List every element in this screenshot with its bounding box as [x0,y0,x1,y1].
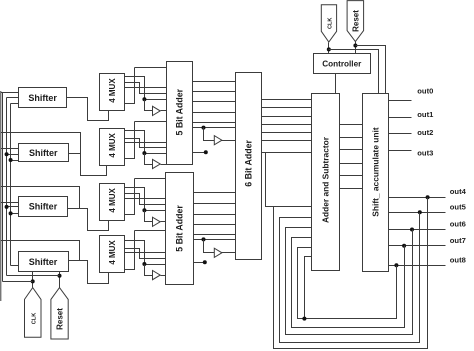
wire - controller output to adder/subtractor [335,74,337,94]
wire - buffer output to 5 bit adder [161,164,167,166]
wire - 4 MUX 3 output 1 [125,188,145,211]
wire - Reset node to Reset bus [7,275,60,277]
input pin CLK (bottom) [25,288,42,338]
junction on 4 MUX 2 output 1 [142,151,146,155]
wire - output out4 [389,197,446,199]
wire - carry line into 5 bit adder (section 3) [135,178,166,180]
svg-text:out7: out7 [450,236,466,245]
shifter block Shifter4 [19,252,69,272]
junction on out8 [394,263,398,267]
multiplexer 4 MUX 1 [100,74,125,111]
wire - 6 bit adder output bit 5 [262,140,312,142]
wire - branch of bit 6 down to feedback row [266,153,312,207]
wire - buffer output to 5 bit adder [161,110,167,112]
input pin CLK (top) [321,5,336,42]
svg-text:Shifter: Shifter [29,202,58,212]
wire - buffer output to 5 bit adder [161,221,166,223]
wire - Shifter1 input from data bus [11,103,19,105]
wire - feedback from carry line into 4 MUX 1 right side [125,68,135,104]
junction on out4 [426,195,430,199]
wire - buffer output into 6 bit adder [222,140,236,142]
wire - output 1 branch down to buffer [145,100,153,111]
label out1 [417,110,434,119]
svg-text:Adder and Subtractor: Adder and Subtractor [320,136,330,223]
svg-text:out4: out4 [450,187,467,196]
wire - output out5 [389,212,446,214]
wire - Reset bus vertical (left) [6,98,8,276]
svg-text:4 MUX: 4 MUX [108,240,117,265]
shifter block Shifter1 [19,88,67,108]
svg-text:5 Bit Adder: 5 Bit Adder [175,88,185,135]
wire - Shifter3 input from Reset bus [7,206,19,208]
wire - feedback branch from adder/subtractor into out8 loop [305,257,312,319]
wire - 5 bit adder output bit 1 [193,91,236,93]
wire - Reset pin to Shifter4 [59,272,61,288]
svg-text:out3: out3 [417,148,433,157]
wire - adder/subtractor output 1 to shift accumulate unit [340,137,363,139]
wire - adder/subtractor output 5 to shift accumulate unit [340,188,363,190]
wire - stub with terminal dot [194,262,205,264]
svg-text:4 MUX: 4 MUX [108,187,117,212]
wire - Shifter3 input from data bus [11,213,19,215]
wire - 4 MUX 4 output 3 [125,252,166,254]
wire - 6 bit adder output bit 3 [262,124,312,126]
junction on Reset bus at Shifter2 [5,152,9,156]
wire - 6 bit adder output bit 6 with feedback branch [262,152,312,154]
multiplexer 4 MUX 3 [100,184,125,221]
wire - Shifter2 input from data bus [11,160,19,162]
wire - CLK pin stub [328,43,330,54]
label out2 [417,128,433,137]
wire - 4 MUX 2 output 2 [125,139,167,148]
wire - carry branch down to buffer [204,240,215,253]
wire - 4 MUX 1 output 1 [125,77,145,100]
wire - 6 bit adder output bit 2 [262,116,312,118]
input pin Reset (top) [347,1,364,42]
buffer driver (section 1) [153,106,161,115]
wire - 5 bit adder output bit 2 [193,101,236,103]
junction on data bus at Shifter2 [9,158,13,162]
wire - 6 bit adder output bit 0 [262,99,312,101]
junction on out8 loop bottom [302,317,306,321]
wire - adder/subtractor output 2 to shift accumulate unit [340,149,363,151]
wire - Shifter1 output to 4 MUX 1 select [67,98,109,121]
terminal dot [203,260,207,264]
junction CLK bottom node [31,279,35,283]
wire - output 1 branch to adder pin [145,210,166,212]
controller block [314,54,371,74]
junction on out5 [418,210,422,214]
wire - carry branch down to buffer [204,128,215,141]
label out4 [450,187,467,196]
wire - CLK pin to Shifter4 [32,272,34,288]
wire - 4 MUX 4 output 1 [125,241,145,265]
wire - Shifter1 input from Reset bus [7,97,19,99]
wire - Reset pin stub [355,42,357,54]
wire - output out3 [389,150,412,152]
junction on data bus at Shifter3 [9,211,13,215]
shifter block Shifter2 [19,144,69,162]
multiplexer 4 MUX 2 [100,129,125,166]
wire - Shifter3 output to 4 MUX 3 select [68,209,109,231]
buffer driver to 6 bit adder [214,248,222,257]
wire - output 1 branch to adder pin [145,99,167,101]
svg-text:CLK: CLK [31,313,37,325]
junction on 4 MUX 3 output 1 [142,208,146,212]
svg-text:out5: out5 [450,202,467,211]
svg-text:Shifter: Shifter [29,148,58,158]
svg-text:Shifter: Shifter [29,257,58,267]
wire - 4 MUX 3 output 2 [125,194,166,205]
wire - feed line from left edge joining Shifter3 output [1,187,80,209]
svg-text:out6: out6 [450,220,466,229]
wire - output 1 branch to adder pin [145,264,166,266]
wire - output out2 [389,133,412,135]
junction on 4 MUX 4 output 1 [142,262,146,266]
wire - feedback loop out8 to adder/subtractor [298,248,397,319]
svg-text:CLK: CLK [328,18,334,30]
wire - 5 bit adder output bit 2 [194,214,236,216]
svg-text:out2: out2 [417,128,433,137]
wire - 4 MUX 4 output 2 [125,249,166,259]
wire - buffer output into 6 bit adder [222,252,236,254]
wire - 6 bit adder output bit 1 [262,107,312,109]
wire - Shifter2 output to 4 MUX 2 select [69,154,107,176]
buffer driver (section 2) [153,159,161,168]
junction CLK node [327,47,331,51]
wire - 4 MUX 1 output 3 [125,87,167,89]
wire - feedback loop out6 to adder/subtractor [286,228,413,335]
wire - feedback loop out7 to adder/subtractor [292,238,405,328]
junction on out6 [410,228,414,232]
svg-text:4 MUX: 4 MUX [108,132,117,157]
svg-text:out8: out8 [450,255,466,264]
adder-subtractor unit Adder and Subtractor [312,94,340,271]
wire - adder/subtractor output 0 to shift accumulate unit [340,124,363,126]
multiplexer 4 MUX 4 [100,236,125,273]
wire - output 1 branch to adder pin [145,153,167,155]
adder U2 5 Bit Adder (lower) [166,173,194,285]
wire - 4 MUX 2 output 1 [125,131,145,154]
label out0 [417,87,433,96]
svg-text:Reset: Reset [55,308,64,330]
wire - 6 bit adder output bit 4 [262,132,312,134]
wire - output 1 branch down to buffer [145,211,153,222]
junction on Reset bus at Shifter3 [5,205,9,209]
label out5 [450,202,467,211]
junction Reset bottom node [58,274,62,278]
label out8 [450,255,466,264]
svg-text:Controller: Controller [322,59,362,68]
wire - input to Shifter2 from left edge [1,148,19,150]
wire - 5 bit adder output bit 0 [194,192,236,194]
wire - 5 bit adder output bit 3 [193,112,236,114]
wire - input to Shifter3 from left edge [1,202,19,204]
wire - output out6 [389,229,446,231]
wire - output 1 branch down to buffer [145,265,153,276]
wire - adder/subtractor output 4 to shift accumulate unit [340,175,363,177]
wire - feed line from left edge joining Shifter2 output [1,133,81,154]
terminal dot [204,150,208,154]
wire - Shifter4 input from data bus [11,265,19,267]
wire - feedback from carry line into 4 MUX 3 right side [125,179,135,215]
wire - 5 bit adder output bit 4 [194,234,236,236]
wire - cropped gray edge line [0,91,2,301]
label out3 [417,148,433,157]
wire - Shifter4 output to 4 MUX 4 select [69,261,109,284]
junction on 4 MUX 1 output 1 [142,97,146,101]
svg-text:Shift_ accumulate unit: Shift_ accumulate unit [370,127,380,217]
wire - 5 bit adder output bit 3 [194,224,236,226]
wire - 4 MUX 3 output 3 [125,198,166,200]
junction on carry output [202,126,206,130]
wire - adder/subtractor output 3 to shift accumulate unit [340,163,363,165]
wire - buffer output to 5 bit adder [161,275,166,277]
wire - output 1 branch down to buffer [145,154,153,165]
wire - carry line into 5 bit adder (section 2) [135,121,167,123]
wire - feedback from carry line into 4 MUX 2 right side [125,122,135,159]
label out6 [450,220,466,229]
wire - 5 bit adder carry output [194,239,236,241]
svg-text:5 Bit Adder: 5 Bit Adder [174,205,184,252]
adder U1 5 Bit Adder (upper) [167,62,193,165]
wire - output out7 [389,245,446,247]
wire - 5 bit adder output bit 0 [193,81,236,83]
buffer driver (section 4) [153,271,161,280]
wire - 5 bit adder carry output [193,127,236,129]
wire - feed line from left edge joining Shifter4 output [1,241,80,261]
svg-text:Reset: Reset [351,10,360,32]
wire - feedback loop out4 to adder/subtractor [274,198,428,349]
label out7 [450,236,466,245]
accumulator unit Shift_ accumulate unit [363,94,389,272]
svg-text:6 Bit Adder: 6 Bit Adder [243,140,253,187]
wire - stub with terminal dot [193,152,206,154]
svg-text:4 MUX: 4 MUX [108,78,117,103]
wire - Reset to shift accumulate unit top [356,46,386,94]
wire - 5 bit adder output bit 4 [193,122,236,124]
wire - CLK bus vertical (left) [2,93,4,282]
wire - data bus vertical (left) [10,104,12,266]
svg-text:Shifter: Shifter [28,93,57,103]
wire - 4 MUX 1 output 2 [125,83,167,94]
wire - 4 MUX 2 output 3 [125,142,167,144]
junction on out7 [402,244,406,248]
junction Reset node [353,44,357,48]
svg-text:out1: out1 [417,110,434,119]
wire - output out0 [389,100,412,102]
wire - CLK to shift accumulate unit top [329,50,379,94]
input pin Reset (bottom) [51,288,68,339]
buffer driver to 6 bit adder [214,136,222,145]
wire - output out8 [389,265,446,267]
wire - 5 bit adder output bit 1 [194,203,236,205]
wire - carry line into 5 bit adder (section 4) [135,230,166,232]
wire - carry line into 5 bit adder (section 1) [135,67,167,69]
wire - input to Shifter1 from left edge [1,92,19,94]
shifter block Shifter3 [19,197,68,217]
svg-text:out0: out0 [417,87,433,96]
adder U3 6 Bit Adder [236,73,262,260]
wire - CLK node to CLK bus [3,281,33,283]
wire - feedback loop out5 to adder/subtractor [280,213,420,343]
buffer driver (section 3) [153,217,161,226]
wire - Shifter2 input from Reset bus [7,154,19,156]
junction on carry output [202,237,206,241]
wire - output out1 [389,117,412,119]
wire - feedback from carry line into 4 MUX 4 right side [125,231,135,270]
